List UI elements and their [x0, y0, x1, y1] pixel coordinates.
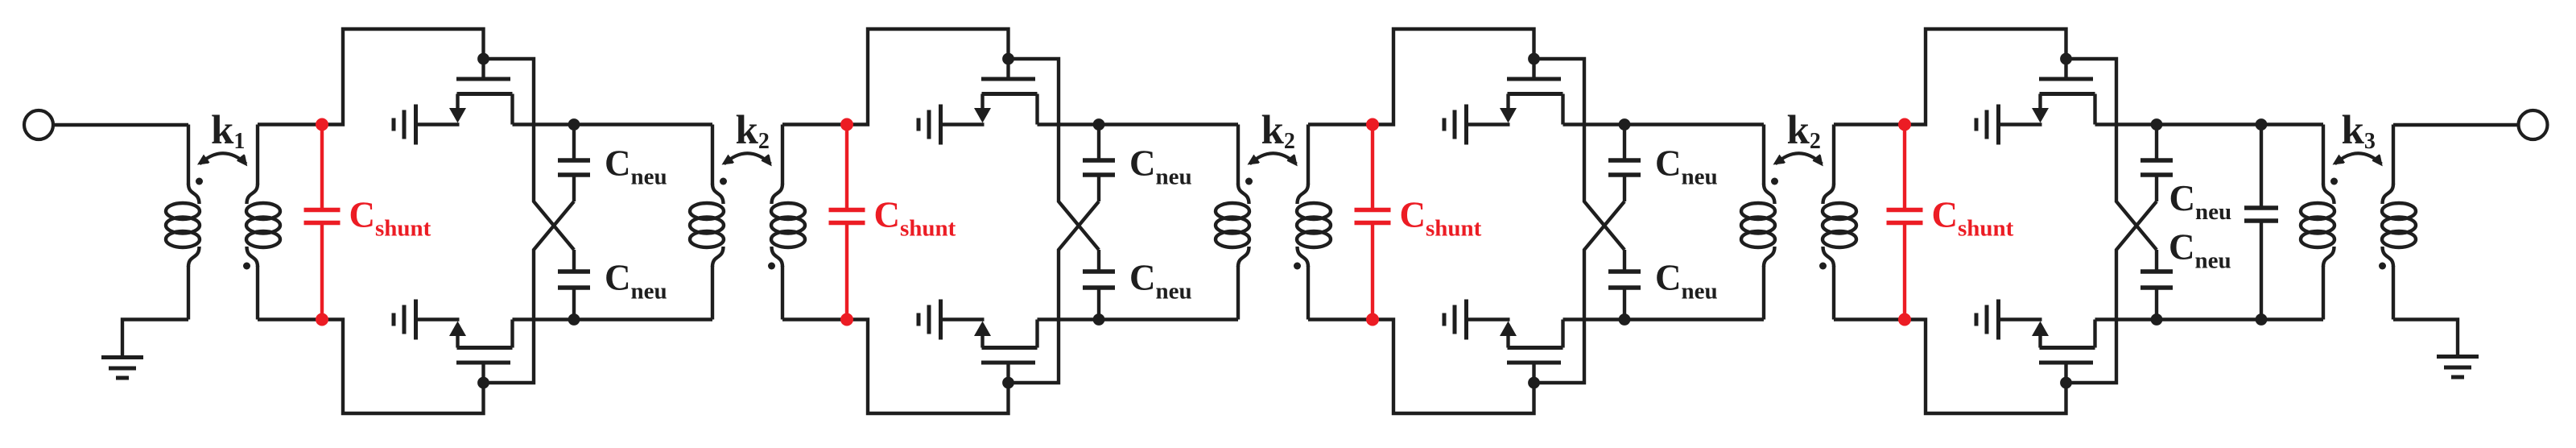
wire M1 source to AC ground — [416, 122, 460, 126]
node stage-2 input - (red) — [840, 313, 853, 326]
transformer T5 secondary winding — [2382, 125, 2416, 320]
junction gate M3 — [1002, 53, 1014, 65]
polarity dot T4 primary — [1771, 178, 1778, 185]
transformer T4 secondary winding — [1823, 125, 1856, 320]
node stage-1 input + (red) — [316, 118, 328, 131]
wire T1 secondary top to stage-1 input node — [258, 122, 322, 126]
wire gate M3 to C_neu lower (cross-couple) — [1009, 59, 1100, 250]
wire M4 source to AC ground — [941, 317, 985, 321]
node stage-2 input + (red) — [840, 118, 853, 131]
AC ground at M2 source — [394, 300, 416, 340]
junction gate M5 — [1528, 53, 1540, 65]
coupling arrow k3 T5 — [2335, 153, 2382, 164]
wire gate M6 to C_neu upper (cross-couple) — [1534, 201, 1625, 383]
capacitor C_neu (stage 1 upper) — [558, 125, 590, 202]
polarity dot T3 secondary — [1294, 263, 1301, 270]
transistor M2 (bottom, stage 1) — [449, 320, 513, 384]
wire gate M4 to C_neu upper (cross-couple) — [1009, 201, 1100, 383]
junction gate M6 — [1528, 377, 1540, 389]
coupling arrow k2 T3 — [1250, 153, 1297, 164]
transformer T5 primary winding — [2301, 125, 2334, 320]
node stage-2 output D+ — [1093, 118, 1105, 131]
wire gate M7 to C_neu lower (cross-couple) — [2066, 59, 2157, 250]
AC ground at M6 source — [1444, 300, 1467, 340]
wire M1 drain to node D+ — [513, 122, 575, 126]
wire M5 source to AC ground — [1467, 122, 1510, 126]
polarity dot T2 primary — [720, 178, 727, 185]
junction gate M4 — [1002, 377, 1014, 389]
capacitor C_shunt (stage 4) — [1887, 125, 1923, 320]
wire stage-4 D- to T5 primary — [2157, 317, 2323, 321]
AC ground at M5 source — [1444, 105, 1467, 145]
wire stage-2 bottom gate rail — [847, 320, 1009, 414]
transformer T3 secondary winding — [1297, 125, 1331, 320]
wire stage-1 D+ to T2 primary — [574, 122, 712, 126]
transformer T3 primary winding — [1216, 125, 1249, 320]
capacitor C_neu (stage 4 lower) — [2140, 250, 2173, 320]
polarity dot T5 secondary — [2379, 263, 2386, 270]
wire T4 secondary top to stage-4 input node — [1834, 122, 1905, 126]
ground (output side) — [2437, 357, 2479, 378]
wire T5 secondary to ground — [2393, 320, 2458, 356]
capacitor C_neu (stage 1 lower) — [558, 250, 590, 320]
wire stage-2 D+ to T3 primary — [1099, 122, 1238, 126]
junction gate M7 — [2060, 53, 2072, 65]
wire T2 secondary top to stage-2 input node — [782, 122, 847, 126]
wire gate M5 to C_neu lower (cross-couple) — [1534, 59, 1625, 250]
junction gate M1 — [477, 53, 489, 65]
capacitor C_neu (stage 3 lower) — [1608, 250, 1641, 320]
wire stage-4 bottom gate rail — [1905, 320, 2066, 414]
polarity dot T4 secondary — [1819, 263, 1827, 270]
capacitor C_shunt (stage 2) — [829, 125, 865, 320]
AC ground at M1 source — [394, 105, 416, 145]
wire M5 drain to node D+ — [1563, 122, 1625, 126]
transformer T1 primary winding — [166, 125, 200, 320]
junction gate M2 — [477, 377, 489, 389]
node stage-2 output D- — [1093, 313, 1105, 326]
transistor M5 (top, stage 3) — [1500, 59, 1563, 125]
wire M4 drain to node D- — [1038, 317, 1100, 321]
wire M7 drain to node D+ — [2095, 122, 2157, 126]
capacitor C_neu (stage 2 upper) — [1083, 125, 1115, 202]
wire stage-3 D+ to T4 primary — [1624, 122, 1764, 126]
transistor M4 (bottom, stage 2) — [974, 320, 1038, 384]
transformer T4 primary winding — [1741, 125, 1775, 320]
node stage-1 output D+ — [568, 118, 580, 131]
wire stage-3 D- to T4 primary — [1624, 317, 1764, 321]
node C_out bottom — [2256, 313, 2268, 326]
wire stage-3 top gate rail — [1373, 29, 1534, 125]
transformer T1 secondary winding — [246, 125, 280, 320]
wire input port to T1 primary — [53, 123, 189, 127]
wire T2 secondary bottom to stage-2 input node — [782, 317, 847, 321]
wire M3 drain to node D+ — [1038, 122, 1100, 126]
capacitor C_out (stage-4 output tank) — [2244, 125, 2278, 320]
transistor M8 (bottom, stage 4) — [2032, 320, 2095, 384]
AC ground at M4 source — [919, 300, 941, 340]
wire T3 secondary top to stage-3 input node — [1308, 122, 1373, 126]
transformer T2 secondary winding — [771, 125, 805, 320]
polarity dot T3 primary — [1245, 178, 1253, 185]
AC ground at M7 source — [1976, 105, 1999, 145]
wire gate M8 to C_neu upper (cross-couple) — [2066, 201, 2157, 383]
wire M2 drain to node D- — [513, 317, 575, 321]
node C_out top — [2256, 118, 2268, 131]
wire stage-3 bottom gate rail — [1373, 320, 1534, 414]
wire T1 primary to ground — [122, 320, 188, 357]
wire M3 source to AC ground — [941, 122, 985, 126]
capacitor C_shunt (stage 1) — [304, 125, 341, 320]
capacitor C_neu (stage 2 lower) — [1083, 250, 1115, 320]
node stage-1 input - (red) — [316, 313, 328, 326]
node stage-4 input + (red) — [1898, 118, 1911, 131]
transistor M1 (top, stage 1) — [449, 59, 513, 125]
node stage-3 input - (red) — [1366, 313, 1379, 326]
wire stage-4 top gate rail — [1905, 29, 2066, 125]
wire M6 source to AC ground — [1467, 317, 1510, 321]
port P2 (RF output) — [2519, 110, 2548, 139]
wire stage-1 bottom gate rail — [322, 320, 484, 414]
wire T5 secondary top to output port — [2393, 123, 2519, 127]
polarity dot T5 primary — [2330, 178, 2338, 185]
wire M6 drain to node D- — [1563, 317, 1625, 321]
node stage-1 output D- — [568, 313, 580, 326]
wire stage-1 top gate rail — [322, 29, 484, 125]
wire M8 drain to node D- — [2095, 317, 2157, 321]
capacitor C_neu (stage 3 upper) — [1608, 125, 1641, 202]
wire stage-2 top gate rail — [847, 29, 1009, 125]
wire M2 source to AC ground — [416, 317, 460, 321]
wire gate M1 to C_neu lower (cross-couple) — [484, 59, 575, 250]
wire gate M2 to C_neu upper (cross-couple) — [484, 201, 575, 383]
wire stage-2 D- to T3 primary — [1099, 317, 1238, 321]
node stage-4 input - (red) — [1898, 313, 1911, 326]
node stage-3 output D- — [1619, 313, 1631, 326]
coupling arrow k2 T4 — [1776, 153, 1823, 164]
AC ground at M8 source — [1976, 300, 1999, 340]
wire M7 source to AC ground — [1999, 122, 2042, 126]
wire T4 secondary bottom to stage-4 input node — [1834, 317, 1905, 321]
wire stage-4 D+ to T5 primary — [2157, 122, 2323, 126]
node stage-4 output D- — [2151, 313, 2163, 326]
wire M8 source to AC ground — [1999, 317, 2042, 321]
transistor M3 (top, stage 2) — [974, 59, 1038, 125]
port P1 (RF input) — [24, 110, 53, 139]
transistor M7 (top, stage 4) — [2032, 59, 2095, 125]
node stage-3 output D+ — [1619, 118, 1631, 131]
polarity dot T1 secondary — [243, 263, 250, 270]
node stage-4 output D+ — [2151, 118, 2163, 131]
node stage-3 input + (red) — [1366, 118, 1379, 131]
coupling arrow k1 T1 — [200, 153, 246, 164]
wire stage-1 D- to T2 primary — [574, 317, 712, 321]
ground (input side) — [101, 358, 143, 379]
AC ground at M3 source — [919, 105, 941, 145]
polarity dot T2 secondary — [768, 263, 775, 270]
transistor M6 (bottom, stage 3) — [1500, 320, 1563, 384]
capacitor C_shunt (stage 3) — [1355, 125, 1391, 320]
transformer T2 primary winding — [690, 125, 724, 320]
polarity dot T1 primary — [196, 178, 203, 185]
coupling arrow k2 T2 — [724, 153, 771, 164]
wire T3 secondary bottom to stage-3 input node — [1308, 317, 1373, 321]
junction gate M8 — [2060, 377, 2072, 389]
capacitor C_neu (stage 4 upper) — [2140, 125, 2173, 202]
wire T1 secondary bottom to stage-1 input node — [258, 317, 322, 321]
